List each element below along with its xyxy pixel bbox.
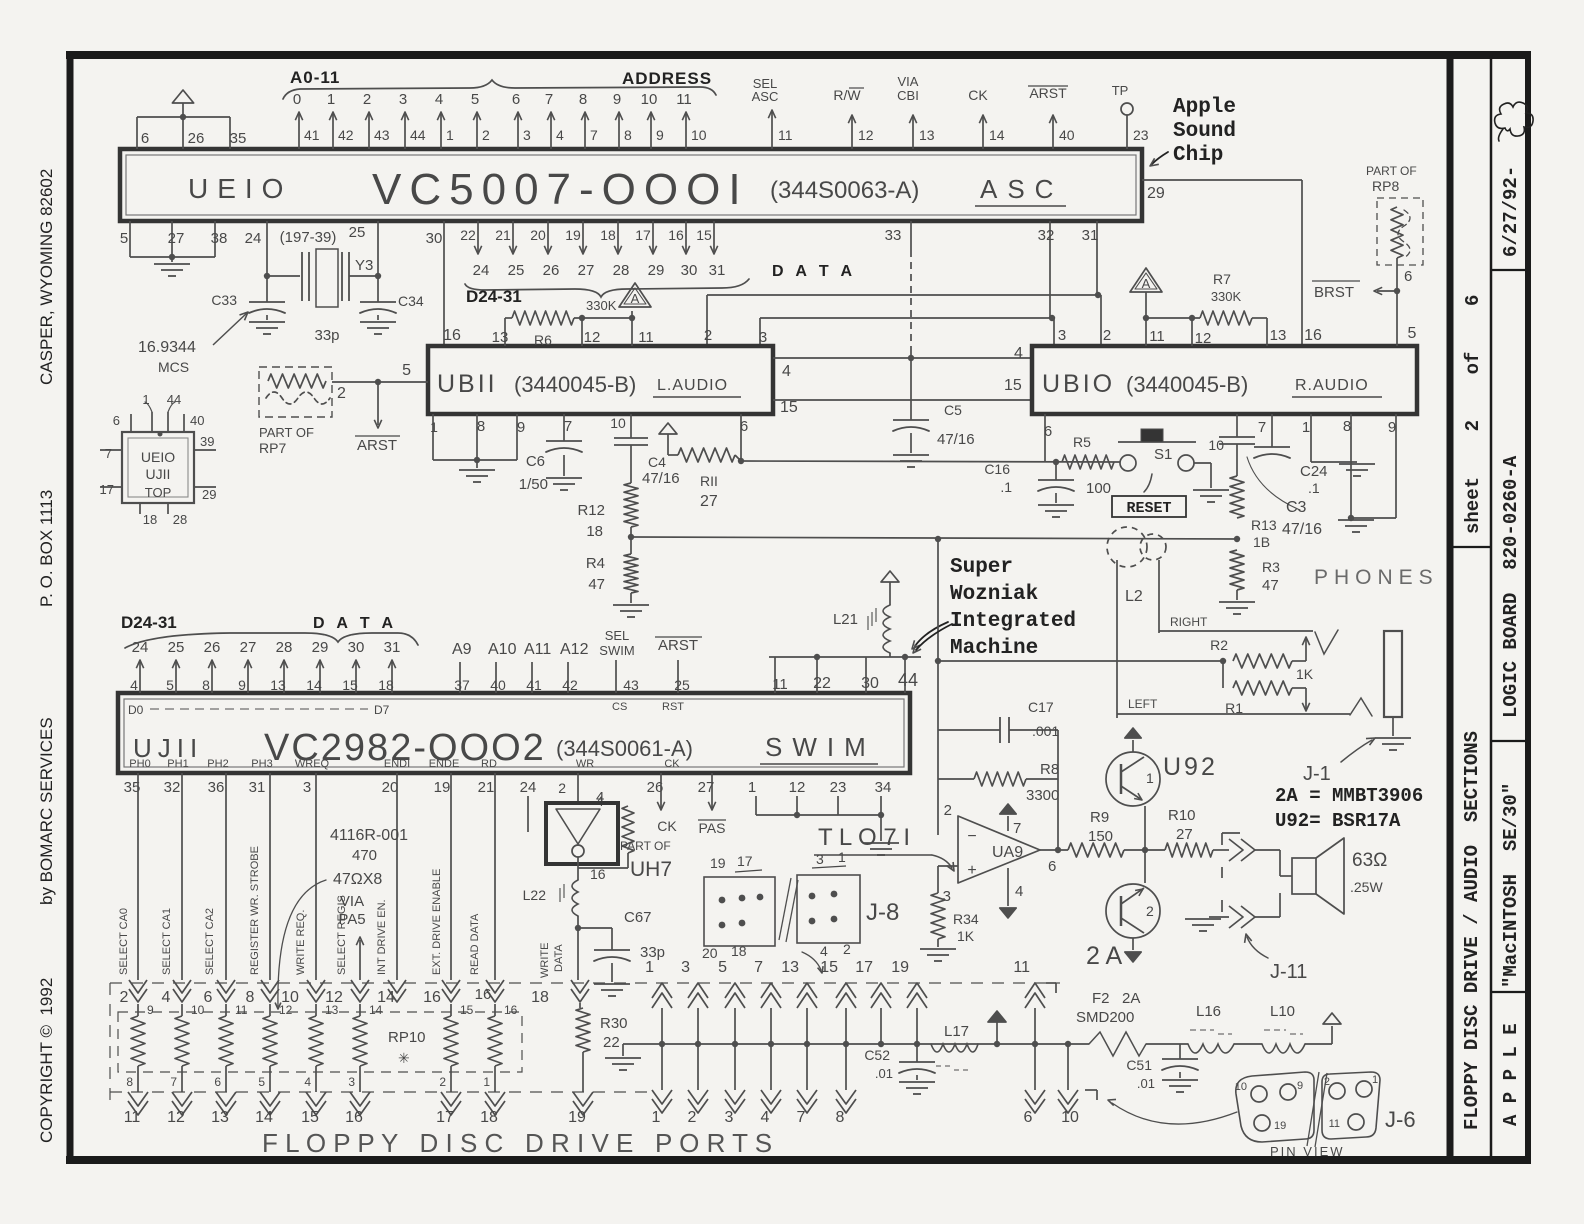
svg-text:2: 2 (439, 1075, 446, 1089)
svg-text:REGISTER WR. STROBE: REGISTER WR. STROBE (249, 846, 261, 975)
svg-text:13: 13 (270, 677, 286, 693)
svg-text:15: 15 (460, 1003, 474, 1017)
svg-text:18: 18 (378, 677, 394, 693)
svg-text:47/16: 47/16 (1282, 521, 1322, 538)
svg-text:2: 2 (704, 327, 712, 344)
svg-text:R7: R7 (1213, 271, 1231, 287)
svg-text:24: 24 (473, 262, 490, 279)
svg-text:+: + (967, 862, 976, 879)
svg-text:L21: L21 (833, 611, 858, 628)
svg-text:SELECT CA2: SELECT CA2 (204, 908, 216, 975)
svg-text:Apple: Apple (1173, 96, 1236, 119)
svg-text:11: 11 (1149, 328, 1165, 345)
svg-text:CK: CK (664, 758, 680, 770)
svg-text:30: 30 (861, 675, 879, 692)
svg-text:A12: A12 (560, 641, 589, 658)
svg-text:READ DATA: READ DATA (469, 913, 481, 975)
svg-text:8: 8 (202, 677, 210, 693)
svg-text:330K: 330K (586, 298, 617, 313)
svg-text:4: 4 (820, 943, 828, 959)
svg-text:1: 1 (652, 1109, 661, 1126)
svg-text:3: 3 (348, 1075, 355, 1089)
svg-text:27: 27 (168, 230, 185, 247)
svg-text:16: 16 (475, 986, 492, 1003)
svg-text:RII: RII (700, 473, 718, 489)
svg-text:7: 7 (754, 959, 763, 976)
svg-text:7: 7 (1013, 820, 1021, 837)
svg-text:CBI: CBI (897, 88, 919, 103)
svg-text:35: 35 (230, 130, 247, 147)
svg-text:5: 5 (718, 959, 727, 976)
svg-text:13: 13 (1270, 327, 1287, 344)
svg-text:P. O. BOX 1113: P. O. BOX 1113 (37, 490, 56, 607)
svg-text:18: 18 (143, 512, 157, 527)
svg-text:44: 44 (410, 127, 426, 143)
svg-text:9: 9 (613, 91, 621, 108)
svg-text:6/27/92-: 6/27/92- (1500, 166, 1522, 257)
svg-text:33: 33 (885, 227, 902, 244)
svg-text:5: 5 (166, 677, 174, 693)
svg-text:6: 6 (1024, 1109, 1033, 1126)
svg-text:ASC: ASC (980, 174, 1063, 204)
svg-text:ENDI: ENDI (384, 758, 410, 770)
svg-text:27: 27 (240, 639, 257, 656)
svg-text:UEIO: UEIO (141, 449, 175, 465)
svg-text:25: 25 (349, 224, 366, 241)
svg-text:J-8: J-8 (866, 899, 899, 926)
svg-text:25: 25 (508, 262, 525, 279)
svg-text:4: 4 (761, 1109, 770, 1126)
svg-text:R/W: R/W (833, 87, 861, 103)
svg-text:9: 9 (517, 419, 525, 436)
svg-text:19: 19 (1274, 1120, 1286, 1132)
svg-text:4116R-001: 4116R-001 (330, 827, 408, 844)
svg-text:8: 8 (126, 1075, 133, 1089)
svg-text:SEL: SEL (605, 628, 630, 643)
svg-text:L16: L16 (1196, 1003, 1221, 1020)
svg-text:1: 1 (748, 779, 756, 796)
svg-text:19: 19 (891, 959, 909, 976)
svg-text:Machine: Machine (950, 637, 1038, 660)
svg-text:COPYRIGHT © 1992: COPYRIGHT © 1992 (37, 978, 56, 1143)
svg-text:10: 10 (641, 91, 658, 108)
svg-text:1K: 1K (957, 928, 975, 944)
svg-text:20: 20 (702, 945, 718, 961)
svg-text:3: 3 (725, 1109, 734, 1126)
svg-text:ARST: ARST (658, 637, 698, 654)
svg-text:ARST: ARST (1029, 85, 1067, 101)
svg-text:VIA: VIA (898, 74, 919, 89)
svg-text:R9: R9 (1090, 809, 1109, 826)
svg-text:2: 2 (120, 989, 129, 1006)
svg-text:Chip: Chip (1173, 144, 1223, 167)
svg-text:28: 28 (613, 262, 630, 279)
svg-text:0: 0 (293, 91, 301, 108)
svg-text:26: 26 (204, 639, 221, 656)
svg-text:.01: .01 (875, 1066, 893, 1081)
svg-text:SMD200: SMD200 (1076, 1009, 1134, 1026)
svg-text:6: 6 (113, 413, 120, 428)
svg-text:PH0: PH0 (129, 758, 150, 770)
svg-text:CK: CK (657, 818, 677, 834)
svg-text:4: 4 (162, 989, 171, 1006)
svg-text:4: 4 (556, 127, 564, 143)
svg-text:31: 31 (1082, 227, 1099, 244)
svg-text:SELECT CA1: SELECT CA1 (161, 908, 173, 975)
svg-text:A0-11: A0-11 (290, 68, 340, 87)
svg-text:PART OF: PART OF (620, 839, 671, 853)
svg-text:RESET: RESET (1126, 500, 1171, 517)
svg-text:11: 11 (1329, 1118, 1340, 1130)
svg-text:16: 16 (443, 327, 461, 344)
svg-text:2 A: 2 A (1086, 942, 1122, 970)
svg-text:UJII: UJII (146, 466, 171, 482)
svg-text:38: 38 (211, 230, 228, 247)
svg-text:6: 6 (204, 989, 213, 1006)
svg-text:7: 7 (545, 91, 553, 108)
svg-text:16: 16 (668, 227, 684, 243)
svg-text:31: 31 (709, 262, 726, 279)
svg-text:37: 37 (454, 677, 470, 693)
svg-text:12: 12 (858, 127, 874, 143)
svg-text:RP8: RP8 (1372, 178, 1399, 194)
svg-text:29: 29 (202, 487, 216, 502)
svg-text:19: 19 (710, 855, 726, 871)
svg-text:"MacINTOSH SE/30": "MacINTOSH SE/30" (1500, 783, 1522, 988)
svg-text:30: 30 (426, 230, 443, 247)
svg-text:C33: C33 (211, 292, 237, 308)
svg-text:25: 25 (168, 639, 185, 656)
svg-text:11: 11 (772, 676, 788, 693)
svg-text:A: A (631, 291, 640, 306)
svg-text:RP10: RP10 (388, 1029, 426, 1046)
svg-text:21: 21 (495, 227, 511, 243)
svg-text:17: 17 (436, 1109, 454, 1126)
svg-text:11: 11 (676, 91, 692, 108)
svg-text:14: 14 (306, 677, 322, 693)
svg-text:30: 30 (681, 262, 698, 279)
svg-text:EXT. DRIVE ENABLE: EXT. DRIVE ENABLE (431, 869, 443, 975)
svg-text:RD: RD (481, 758, 497, 770)
svg-text:R10: R10 (1168, 807, 1196, 824)
svg-text:R4: R4 (586, 555, 605, 572)
svg-text:24: 24 (520, 779, 537, 796)
svg-text:(344S0063-A): (344S0063-A) (770, 177, 919, 204)
svg-text:17: 17 (737, 853, 753, 869)
svg-text:41: 41 (304, 127, 320, 143)
svg-text:R30: R30 (600, 1015, 628, 1032)
svg-text:WREQ: WREQ (295, 758, 330, 770)
svg-text:6: 6 (1044, 423, 1052, 440)
svg-text:L17: L17 (944, 1023, 969, 1040)
svg-text:19: 19 (434, 779, 451, 796)
svg-text:UBIO: UBIO (1042, 370, 1115, 398)
svg-text:18: 18 (731, 943, 747, 959)
svg-text:43: 43 (374, 127, 390, 143)
svg-text:23: 23 (1133, 127, 1149, 143)
svg-text:.1: .1 (1000, 479, 1012, 495)
svg-text:5: 5 (1408, 325, 1417, 342)
svg-text:SWIM: SWIM (765, 732, 876, 762)
svg-text:J-1: J-1 (1303, 763, 1331, 785)
svg-text:C51: C51 (1126, 1057, 1152, 1073)
svg-text:F L O P P Y D I S C D R I: F L O P P Y D I S C D R I V E P O R T S (262, 1128, 772, 1158)
svg-text:12: 12 (1195, 330, 1212, 347)
svg-text:UH7: UH7 (630, 858, 672, 881)
svg-text:10: 10 (1061, 1109, 1079, 1126)
svg-text:34: 34 (875, 779, 892, 796)
svg-text:7: 7 (105, 446, 112, 461)
svg-text:330K: 330K (1211, 289, 1242, 304)
svg-text:15: 15 (342, 677, 358, 693)
svg-text:4: 4 (130, 677, 138, 693)
svg-text:1: 1 (1146, 770, 1154, 786)
svg-text:32: 32 (164, 779, 181, 796)
svg-text:(3440045-B): (3440045-B) (514, 372, 636, 397)
svg-text:25: 25 (674, 677, 690, 693)
svg-text:SELECT CA0: SELECT CA0 (118, 908, 130, 975)
svg-text:2A: 2A (1122, 990, 1140, 1007)
svg-text:2: 2 (843, 941, 851, 957)
svg-text:4: 4 (782, 363, 791, 380)
svg-text:PART OF: PART OF (1366, 164, 1417, 178)
svg-text:R13: R13 (1251, 517, 1277, 533)
svg-text:24: 24 (245, 230, 262, 247)
svg-text:1: 1 (483, 1075, 490, 1089)
svg-text:3: 3 (523, 127, 531, 143)
svg-text:3: 3 (681, 959, 690, 976)
svg-text:32: 32 (1038, 227, 1055, 244)
svg-text:S1: S1 (1154, 446, 1172, 463)
svg-text:43: 43 (623, 677, 639, 693)
svg-text:ADDRESS: ADDRESS (622, 69, 712, 88)
svg-text:4: 4 (1014, 345, 1023, 362)
svg-text:TP: TP (1112, 83, 1129, 98)
svg-text:3: 3 (759, 329, 767, 346)
svg-text:9: 9 (238, 677, 246, 693)
svg-text:13: 13 (325, 1003, 339, 1017)
svg-text:31: 31 (249, 779, 266, 796)
svg-text:R.AUDIO: R.AUDIO (1295, 377, 1369, 394)
svg-text:28: 28 (276, 639, 293, 656)
svg-text:11: 11 (235, 1003, 248, 1017)
svg-text:CASPER, WYOMING 82602: CASPER, WYOMING 82602 (37, 169, 56, 385)
svg-text:6: 6 (740, 418, 748, 435)
svg-text:J-11: J-11 (1270, 961, 1307, 983)
svg-text:5: 5 (120, 230, 128, 247)
svg-text:27: 27 (700, 493, 718, 510)
svg-text:44: 44 (167, 392, 181, 407)
svg-text:14: 14 (369, 1003, 383, 1017)
svg-text:1B: 1B (1253, 534, 1270, 550)
svg-text:PAS: PAS (699, 820, 726, 836)
svg-text:16: 16 (1304, 327, 1322, 344)
svg-text:1: 1 (327, 91, 335, 108)
svg-text:Super: Super (950, 556, 1013, 579)
svg-text:7: 7 (1258, 419, 1266, 436)
svg-text:27: 27 (1176, 826, 1193, 843)
svg-text:Wozniak: Wozniak (950, 583, 1038, 606)
svg-text:8: 8 (836, 1109, 845, 1126)
svg-text:21: 21 (478, 779, 495, 796)
svg-text:12: 12 (789, 779, 806, 796)
svg-text:12: 12 (584, 329, 601, 346)
svg-text:by BOMARC SERVICES: by BOMARC SERVICES (37, 717, 56, 905)
svg-text:C5: C5 (944, 402, 962, 418)
svg-text:L22: L22 (523, 887, 547, 903)
svg-text:BRST: BRST (1314, 284, 1354, 301)
svg-text:J-6: J-6 (1385, 1107, 1416, 1132)
svg-text:12: 12 (167, 1109, 185, 1126)
svg-text:7: 7 (170, 1075, 177, 1089)
svg-text:C67: C67 (624, 909, 652, 926)
svg-text:T L O 7 I: T L O 7 I (818, 824, 910, 851)
svg-text:7: 7 (564, 418, 572, 435)
svg-text:18: 18 (480, 1109, 498, 1126)
svg-text:CS: CS (612, 701, 627, 713)
svg-text:42: 42 (338, 127, 354, 143)
svg-text:6: 6 (214, 1075, 221, 1089)
svg-text:22: 22 (603, 1034, 620, 1051)
svg-text:47/16: 47/16 (937, 431, 975, 448)
svg-text:✳: ✳ (398, 1050, 410, 1066)
svg-text:C17: C17 (1028, 699, 1054, 715)
svg-text:29: 29 (648, 262, 665, 279)
svg-text:PH3: PH3 (251, 758, 272, 770)
svg-text:11: 11 (638, 329, 654, 346)
svg-text:LOGIC BOARD 820-0260-A: LOGIC BOARD 820-0260-A (1500, 455, 1522, 718)
svg-text:40: 40 (490, 677, 506, 693)
svg-text:2: 2 (1103, 327, 1111, 344)
svg-text:D24-31: D24-31 (466, 287, 522, 306)
svg-text:10: 10 (691, 127, 707, 143)
svg-text:13: 13 (492, 329, 509, 346)
svg-text:17: 17 (855, 959, 873, 976)
svg-text:2: 2 (363, 91, 371, 108)
svg-text:40: 40 (1059, 127, 1075, 143)
svg-text:14: 14 (989, 127, 1005, 143)
svg-text:2: 2 (337, 385, 346, 402)
svg-text:47: 47 (588, 576, 605, 593)
svg-text:16: 16 (504, 1003, 518, 1017)
svg-text:R8: R8 (1040, 761, 1059, 778)
svg-text:1: 1 (446, 127, 454, 143)
svg-text:16.9344: 16.9344 (138, 339, 196, 356)
svg-text:31: 31 (384, 639, 401, 656)
svg-text:C4: C4 (648, 454, 666, 470)
svg-text:5: 5 (402, 362, 411, 379)
svg-text:R12: R12 (577, 502, 605, 519)
svg-text:2: 2 (558, 780, 566, 796)
svg-text:11: 11 (1013, 959, 1030, 976)
svg-text:36: 36 (208, 779, 225, 796)
svg-text:LEFT: LEFT (1128, 697, 1158, 711)
svg-text:D24-31: D24-31 (121, 613, 177, 632)
svg-text:R34: R34 (953, 911, 979, 927)
svg-text:1: 1 (1302, 419, 1310, 436)
svg-text:Integrated: Integrated (950, 610, 1076, 633)
svg-text:18: 18 (531, 989, 549, 1006)
svg-text:3: 3 (816, 851, 824, 867)
svg-text:PA5: PA5 (338, 911, 365, 928)
svg-text:L10: L10 (1270, 1003, 1295, 1020)
svg-text:26: 26 (188, 130, 205, 147)
svg-text:33p: 33p (314, 327, 339, 344)
svg-text:5: 5 (471, 91, 479, 108)
svg-text:8: 8 (624, 127, 632, 143)
svg-text:7: 7 (590, 127, 598, 143)
svg-text:6: 6 (1404, 268, 1412, 285)
svg-text:C3: C3 (1286, 499, 1307, 516)
svg-text:2: 2 (1146, 903, 1154, 919)
svg-text:UEIO: UEIO (188, 173, 292, 204)
svg-text:L.AUDIO: L.AUDIO (657, 377, 728, 394)
svg-text:17: 17 (100, 482, 114, 497)
svg-text:27: 27 (578, 262, 595, 279)
svg-text:3: 3 (399, 91, 407, 108)
svg-text:−: − (967, 828, 976, 845)
svg-text:5: 5 (258, 1075, 265, 1089)
svg-text:63Ω: 63Ω (1352, 850, 1387, 871)
svg-text:1: 1 (142, 392, 149, 407)
svg-text:U92= BSR17A: U92= BSR17A (1275, 810, 1401, 832)
svg-text:15: 15 (301, 1109, 319, 1126)
svg-text:6: 6 (1048, 858, 1056, 875)
svg-text:17: 17 (635, 227, 651, 243)
svg-text:23: 23 (830, 779, 847, 796)
svg-text:40: 40 (190, 413, 204, 428)
svg-text:2: 2 (688, 1109, 697, 1126)
svg-text:470: 470 (352, 847, 377, 864)
svg-text:R6: R6 (534, 332, 552, 348)
svg-text:10: 10 (191, 1003, 205, 1017)
svg-text:R2: R2 (1210, 637, 1228, 653)
svg-text:3300: 3300 (1026, 787, 1059, 804)
svg-text:16: 16 (345, 1109, 363, 1126)
svg-text:(197-39): (197-39) (280, 229, 337, 246)
svg-text:1: 1 (1372, 1074, 1378, 1086)
svg-text:42: 42 (562, 677, 578, 693)
svg-text:9: 9 (147, 1003, 154, 1017)
svg-text:15: 15 (780, 399, 798, 416)
svg-text:Sound: Sound (1173, 120, 1236, 143)
svg-text:C52: C52 (864, 1047, 890, 1063)
svg-text:VIA: VIA (340, 893, 364, 910)
svg-text:WRITE: WRITE (539, 943, 551, 978)
svg-text:TOP: TOP (145, 485, 172, 500)
svg-text:150: 150 (1088, 828, 1113, 845)
svg-text:14: 14 (255, 1109, 273, 1126)
svg-text:4: 4 (304, 1075, 311, 1089)
svg-text:15: 15 (1004, 377, 1022, 394)
svg-text:sheet 2 of 6: sheet 2 of 6 (1462, 295, 1484, 534)
svg-text:1: 1 (430, 419, 438, 435)
svg-text:CK: CK (968, 87, 988, 103)
svg-text:L2: L2 (1125, 588, 1143, 605)
svg-text:DATA: DATA (553, 944, 565, 972)
svg-text:30: 30 (348, 639, 365, 656)
svg-text:ARST: ARST (357, 437, 397, 454)
svg-text:.1: .1 (1308, 480, 1320, 496)
svg-text:D A T A: D A T A (772, 263, 856, 280)
svg-text:2: 2 (482, 127, 490, 143)
svg-text:15: 15 (820, 959, 838, 976)
svg-text:1/50: 1/50 (519, 476, 548, 493)
svg-text:11: 11 (778, 127, 793, 143)
svg-text:20: 20 (382, 779, 399, 796)
svg-text:A P P L E: A P P L E (1500, 1023, 1522, 1126)
svg-text:8: 8 (579, 91, 587, 108)
